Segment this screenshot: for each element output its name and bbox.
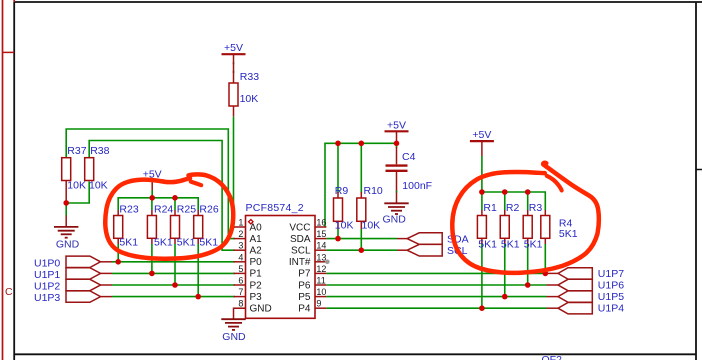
- wire SCL row: [326, 249, 407, 251]
- net flag U1P6: [558, 279, 624, 291]
- wire left resistor top bus: [118, 198, 198, 210]
- svg-text:U1P7: U1P7: [598, 268, 624, 280]
- resistor R25: [171, 204, 197, 249]
- svg-text:R10: R10: [364, 185, 383, 197]
- svg-text:14: 14: [316, 241, 326, 251]
- svg-text:U1P5: U1P5: [598, 291, 624, 303]
- svg-text:OF2: OF2: [542, 354, 563, 360]
- junction R3 on U1P6: [525, 282, 531, 288]
- resistor R23: [114, 204, 139, 249]
- wire row U1P1 to pin P1: [101, 272, 236, 274]
- svg-text:A2: A2: [250, 246, 263, 257]
- red border tick: [3, 51, 15, 53]
- svg-text:5K1: 5K1: [119, 237, 138, 249]
- svg-text:5K1: 5K1: [524, 239, 543, 251]
- IC right pin stubs: [315, 227, 326, 308]
- svg-text:11: 11: [316, 276, 325, 286]
- junction +5V / R24 top bus: [149, 195, 155, 201]
- wire row U1P0 to pin P0: [101, 261, 236, 263]
- svg-text:5K1: 5K1: [501, 239, 520, 251]
- wire row U1P5 to pin P5: [326, 296, 558, 298]
- svg-text:+5V: +5V: [472, 129, 491, 141]
- capacitor C4: [386, 151, 433, 192]
- svg-text:GND: GND: [56, 238, 80, 250]
- svg-text:P7: P7: [298, 269, 311, 280]
- net flag SDA: [407, 233, 468, 246]
- junction +5V / R1 top bus: [479, 189, 485, 195]
- svg-text:+5V: +5V: [387, 119, 406, 131]
- ground GND (under IC): [221, 319, 246, 343]
- svg-text:9: 9: [316, 299, 321, 309]
- wire row U1P3 to pin P3: [101, 296, 236, 298]
- wire R37/R38 bottom link: [66, 181, 89, 227]
- net flag U1P3: [34, 291, 101, 304]
- net flag U1P0: [34, 256, 101, 269]
- resistor R10: [357, 185, 383, 231]
- pin numbers left 1-8: [238, 218, 243, 309]
- svg-text:PCF8574_2: PCF8574_2: [246, 202, 304, 214]
- resistor R33: [229, 54, 259, 106]
- wire R1 bottom to U1P4: [481, 238, 483, 308]
- svg-text:R33: R33: [240, 71, 259, 83]
- junction +5V / C4 on VCC bus: [394, 141, 400, 147]
- svg-text:SDA: SDA: [447, 233, 469, 245]
- svg-text:GND: GND: [383, 214, 407, 226]
- resistor R1: [477, 202, 497, 251]
- pin names left: [250, 222, 272, 314]
- svg-text:13: 13: [316, 252, 326, 262]
- resistor R9: [334, 185, 354, 231]
- svg-text:GND: GND: [222, 331, 246, 343]
- wire R10 leads: [360, 143, 362, 250]
- junction R10 top on VCC bus: [359, 141, 365, 147]
- svg-text:R24: R24: [154, 204, 173, 216]
- svg-text:R3: R3: [529, 202, 543, 214]
- svg-text:R25: R25: [177, 204, 196, 216]
- svg-text:12: 12: [316, 264, 326, 274]
- svg-text:U1P6: U1P6: [598, 280, 624, 292]
- junction R9 top on VCC bus: [335, 141, 341, 147]
- svg-text:3: 3: [238, 241, 243, 251]
- junction R3 top bus: [525, 189, 531, 195]
- svg-text:R26: R26: [199, 204, 218, 216]
- junction R10 on SCL: [359, 247, 365, 253]
- wire R24 bottom to P1: [151, 238, 153, 273]
- net flag U1P4: [558, 303, 624, 315]
- wire VCC bus from pin16: [325, 143, 397, 227]
- wire R23 bottom to P0: [117, 238, 119, 261]
- svg-text:R23: R23: [119, 204, 138, 216]
- svg-text:4: 4: [238, 252, 243, 262]
- junction R25 on U1P2: [172, 282, 178, 288]
- svg-text:R9: R9: [335, 185, 349, 197]
- wire SDA row: [326, 238, 407, 240]
- svg-text:+5V: +5V: [224, 42, 243, 54]
- junction R26 on U1P3: [195, 294, 201, 300]
- power +5V (right resistor group): [470, 129, 494, 141]
- junction R4 on U1P7: [543, 271, 549, 277]
- svg-text:10K: 10K: [240, 93, 259, 105]
- svg-text:10K: 10K: [362, 219, 381, 231]
- svg-text:P6: P6: [298, 280, 311, 291]
- net flag U1P2: [34, 279, 101, 292]
- svg-text:6: 6: [238, 276, 243, 286]
- svg-text:5K1: 5K1: [177, 237, 196, 249]
- svg-text:5K1: 5K1: [199, 237, 218, 249]
- junction R24 on U1P1: [149, 271, 155, 277]
- svg-text:C: C: [5, 286, 13, 298]
- frame tick right: [696, 169, 702, 171]
- wire +5V middle drop: [396, 131, 398, 143]
- svg-text:8: 8: [238, 299, 243, 309]
- pin13 unconnected dot: [325, 260, 330, 265]
- wire R3 bottom to U1P6: [527, 238, 529, 285]
- svg-text:7: 7: [238, 287, 243, 297]
- svg-text:10K: 10K: [67, 179, 86, 191]
- svg-text:R2: R2: [506, 202, 520, 214]
- IC U1 PCF8574_2 body: [246, 202, 316, 318]
- svg-text:5: 5: [238, 264, 243, 274]
- resistor R3: [523, 202, 542, 251]
- wire C4 bottom lead to GND: [396, 172, 398, 203]
- net flag U1P7: [558, 268, 624, 280]
- wire C4 top lead: [396, 143, 398, 164]
- ground GND (R37/R38): [54, 227, 80, 250]
- svg-text:U1P2: U1P2: [34, 281, 60, 293]
- svg-text:R37: R37: [67, 145, 86, 157]
- svg-text:10K: 10K: [89, 179, 108, 191]
- svg-text:U1P1: U1P1: [34, 269, 60, 281]
- svg-text:P0: P0: [250, 257, 263, 268]
- svg-text:U1P4: U1P4: [598, 303, 624, 315]
- svg-text:R1: R1: [483, 202, 497, 214]
- annotation scribble left loop: [105, 174, 233, 258]
- svg-text:1: 1: [238, 218, 243, 228]
- svg-text:R38: R38: [90, 145, 109, 157]
- wire stub ticks on R33 top lead: [233, 62, 235, 73]
- wire +5V to left resistor bus: [151, 180, 153, 198]
- svg-text:5K1: 5K1: [478, 239, 497, 251]
- annotation scribble right loop: [452, 163, 599, 273]
- svg-text:16: 16: [316, 218, 326, 228]
- junction R2 top bus: [502, 189, 508, 195]
- red sheet border line left: [2, 0, 4, 360]
- svg-text:P2: P2: [250, 280, 263, 291]
- svg-text:SDA: SDA: [290, 234, 311, 245]
- junction R23 on U1P0: [115, 259, 121, 265]
- svg-text:5K1: 5K1: [559, 228, 578, 240]
- IC left pin stubs: [234, 227, 246, 308]
- wire pin8 GND to ground: [234, 308, 246, 319]
- svg-text:A1: A1: [250, 234, 263, 245]
- svg-text:P4: P4: [298, 304, 311, 315]
- power +5V (R33): [222, 42, 246, 54]
- resistor R26: [194, 204, 219, 249]
- red border stub top: [13, 0, 15, 2]
- wire right resistor top bus: [482, 192, 545, 210]
- wire R4 bottom to U1P7: [544, 238, 546, 273]
- svg-text:VCC: VCC: [289, 222, 310, 233]
- svg-text:U1P3: U1P3: [34, 292, 60, 304]
- junction R25 top bus: [172, 195, 178, 201]
- wire row U1P4 to pin P4: [326, 307, 558, 309]
- junction R1 on U1P4: [479, 305, 485, 311]
- svg-text:2: 2: [238, 229, 243, 239]
- wire row U1P7 to pin P7: [326, 272, 558, 274]
- resistor R37: [62, 145, 87, 191]
- wire row U1P2 to pin P2: [101, 284, 236, 286]
- wire row U1P6 to pin P6: [326, 284, 558, 286]
- wire bus2 R38 to pin A2: [89, 141, 235, 251]
- wire R2 bottom to U1P5: [504, 238, 506, 296]
- svg-text:GND: GND: [250, 304, 272, 315]
- pin numbers right 16-9: [316, 218, 326, 309]
- resistor R4: [541, 210, 578, 240]
- net flag U1P1: [34, 268, 101, 281]
- wire R33 to pin A0: [234, 106, 236, 227]
- net flag SCL: [407, 244, 467, 257]
- wire R26 bottom to P3: [197, 238, 199, 296]
- junction R9 on SDA: [335, 236, 341, 242]
- resistor R2: [500, 202, 519, 251]
- svg-text:C4: C4: [402, 151, 416, 163]
- svg-text:10K: 10K: [335, 219, 354, 231]
- wire R9 leads: [337, 143, 339, 238]
- svg-text:SCL: SCL: [291, 246, 311, 257]
- junction R37/R38 bottom: [63, 200, 69, 206]
- pin 1 marker diamond: [249, 220, 253, 224]
- svg-text:P3: P3: [250, 292, 263, 303]
- svg-text:A0: A0: [250, 222, 263, 233]
- net flag U1P5: [558, 291, 624, 303]
- wire bus1 R37 to pin A1: [66, 129, 235, 239]
- svg-text:P5: P5: [298, 292, 311, 303]
- wire +5V right drop: [481, 141, 483, 192]
- svg-text:100nF: 100nF: [402, 180, 432, 192]
- svg-text:U1P0: U1P0: [34, 257, 60, 269]
- svg-text:15: 15: [316, 229, 326, 239]
- svg-text:10: 10: [316, 287, 326, 297]
- junction R2 on U1P5: [502, 294, 508, 300]
- resistor R38: [85, 145, 110, 191]
- power +5V (middle): [385, 119, 409, 131]
- svg-text:P1: P1: [250, 269, 263, 280]
- pin names right: [289, 222, 311, 314]
- svg-text:INT#: INT#: [289, 257, 311, 268]
- wire R25 bottom to P2: [174, 238, 176, 285]
- ground GND (under C4): [383, 203, 409, 225]
- resistor R24: [147, 204, 173, 249]
- power +5V (left resistor group): [140, 169, 164, 181]
